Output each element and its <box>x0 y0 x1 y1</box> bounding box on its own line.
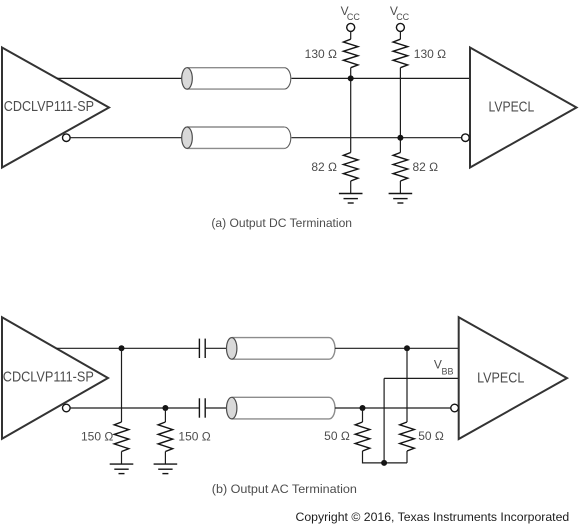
wire: R7 bottom elbow <box>363 451 408 463</box>
wire: U3 true output to capacitor C1 <box>57 347 200 349</box>
receiver U4 LVPECL (fig b) <box>459 317 567 439</box>
wire: C2 to transmission line T4 <box>205 407 232 409</box>
wire: top line down across bottom line to R5 <box>121 348 123 422</box>
node: junction dot on bottom line at R6 <box>162 405 168 411</box>
wire: R4 to ground 2 <box>399 181 401 194</box>
svg-text:(a) Output DC Termination: (a) Output DC Termination <box>211 216 352 230</box>
inversion bubble on U3 output (fig b) <box>63 404 71 412</box>
wire: bottom line to R6 <box>164 408 166 422</box>
svg-text:CDCLVP111-SP: CDCLVP111-SP <box>4 99 94 115</box>
wire: R1 down through node to R3 <box>350 68 352 153</box>
wire: C1 to transmission line T3 <box>205 347 232 349</box>
ground 4 <box>154 464 178 474</box>
node: junction dot on bottom line at R4 <box>397 135 403 141</box>
svg-text:(b) Output AC Termination: (b) Output AC Termination <box>212 482 357 496</box>
wire: T3 to LVPECL non-inverting input <box>335 347 459 349</box>
wire: U3 inverted output to capacitor C2 <box>70 407 199 409</box>
svg-text:CDCLVP111-SP: CDCLVP111-SP <box>3 369 94 385</box>
net label Vbb <box>434 358 454 377</box>
wire: R5 to ground 3 <box>121 452 123 465</box>
svg-text:CC: CC <box>347 12 360 22</box>
svg-text:Copyright © 2016, Texas Instru: Copyright © 2016, Texas Instruments Inco… <box>296 510 570 524</box>
wire: T4 to LVPECL inverting input <box>335 407 451 409</box>
wire: Vcc2 to R2 <box>399 31 401 39</box>
resistor R4 82 ohm <box>393 153 438 182</box>
wire: U1 true output to transmission line T1 <box>57 77 187 79</box>
resistor R3 82 ohm <box>311 153 358 182</box>
transmission line T2 (fig a bottom) <box>182 127 291 148</box>
wire: R6 to ground 4 <box>164 452 166 465</box>
capacitor C2 (bottom) <box>199 398 205 417</box>
wire: R3 to ground 1 <box>350 181 352 194</box>
wire: Vcc1 to R1 <box>350 31 352 39</box>
transmission line T3 (fig b top) <box>227 338 336 360</box>
svg-text:82 Ω: 82 Ω <box>413 160 439 174</box>
wire: U1 inverted output to transmission line T2 <box>70 137 187 139</box>
resistor R1 130 ohm <box>305 39 358 67</box>
wire: top line down through Vbb line and bottom line to R8 <box>406 348 408 422</box>
svg-text:50 Ω: 50 Ω <box>324 429 350 443</box>
ground 3 <box>110 464 134 474</box>
ground 1 <box>339 194 363 204</box>
svg-text:LVPECL: LVPECL <box>477 370 524 386</box>
transmission line T1 (fig a top) <box>182 68 291 89</box>
svg-text:LVPECL: LVPECL <box>489 99 535 115</box>
resistor R8 50 ohm <box>400 422 444 451</box>
wire: bottom line to R7 <box>362 408 364 422</box>
resistor R6 150 ohm <box>158 422 211 452</box>
Vcc supply terminal 2 <box>390 4 410 32</box>
wire: R2 down across top line to R4 <box>399 68 401 153</box>
ground 2 <box>389 194 413 204</box>
capacitor C1 (top) <box>199 339 205 358</box>
svg-text:130 Ω: 130 Ω <box>305 47 337 61</box>
resistor R7 50 ohm <box>324 422 370 451</box>
node: junction dot on top line at R8 <box>404 345 410 351</box>
node: junction dot at Vbb tail <box>381 460 387 466</box>
wire: Vbb vertical <box>383 378 385 463</box>
wire: T2 to LVPECL inverting input <box>292 137 462 139</box>
transmission line T4 (fig b bottom) <box>227 397 336 419</box>
svg-text:150 Ω: 150 Ω <box>81 430 113 444</box>
node: junction dot on top line at R5 <box>119 345 125 351</box>
wire: Vbb horizontal into LVPECL <box>384 377 459 379</box>
inversion bubble on U1 output (fig a) <box>63 134 71 142</box>
receiver U2 LVPECL (fig a) <box>470 48 577 168</box>
svg-text:BB: BB <box>442 366 454 376</box>
node: junction dot on top line at R1 <box>348 75 354 81</box>
wire: R8 bottom elbow <box>406 451 408 463</box>
svg-text:82 Ω: 82 Ω <box>311 160 337 174</box>
driver U1 CDCLVP111-SP (fig a) <box>2 48 109 168</box>
svg-text:130 Ω: 130 Ω <box>414 47 446 61</box>
Vcc supply terminal 1 <box>341 4 361 32</box>
inversion bubble on U4 input (fig b) <box>451 404 459 412</box>
wire: T1 to LVPECL non-inverting input <box>292 77 471 79</box>
svg-text:150 Ω: 150 Ω <box>178 430 210 444</box>
inversion bubble on U2 input (fig a) <box>462 134 470 142</box>
resistor R2 130 ohm <box>393 39 446 67</box>
node: junction dot on bottom line at R7 <box>360 405 366 411</box>
svg-text:CC: CC <box>396 12 409 22</box>
resistor R5 150 ohm <box>81 422 129 452</box>
driver U3 CDCLVP111-SP (fig b) <box>2 317 108 439</box>
svg-text:50 Ω: 50 Ω <box>418 429 444 443</box>
